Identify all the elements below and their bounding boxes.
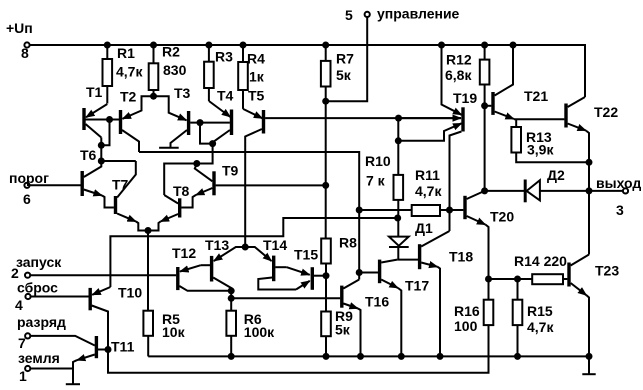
- diode Д1: [389, 237, 409, 260]
- svg-text:4,7к: 4,7к: [116, 64, 143, 80]
- wire comparator tail to R5: [147, 231, 149, 311]
- svg-text:T2: T2: [120, 89, 137, 105]
- svg-text:+Uп: +Uп: [6, 20, 33, 36]
- transistor T21: [493, 45, 564, 127]
- svg-text:T20: T20: [490, 209, 514, 225]
- resistor R4 1к: [238, 45, 248, 109]
- wire +U supply rail: [30, 45, 585, 97]
- junction dot T20 base node: [446, 207, 453, 214]
- svg-text:R3: R3: [215, 49, 233, 65]
- resistor R1 4,7к: [103, 45, 113, 104]
- svg-text:T1: T1: [86, 84, 103, 100]
- svg-text:R11: R11: [415, 167, 440, 183]
- wire T2 collector bus: [139, 152, 359, 280]
- resistor R16 100: [484, 279, 494, 325]
- wire output node: [485, 191, 623, 255]
- svg-text:6: 6: [23, 191, 31, 207]
- resistor R2 830: [149, 45, 159, 96]
- resistor R3: [204, 45, 214, 101]
- svg-text:R7: R7: [336, 51, 354, 67]
- svg-text:R12: R12: [446, 52, 472, 68]
- transistor T15: [287, 267, 326, 290]
- pin 4 terminal сброс: [25, 294, 30, 299]
- ground under T3: [159, 147, 179, 149]
- ground rail: [148, 355, 589, 357]
- svg-text:T22: T22: [594, 104, 618, 120]
- transistor T16: [342, 280, 361, 357]
- pin 8 terminal +Uп: [24, 42, 29, 47]
- wire T13 collector node to R6: [230, 291, 232, 311]
- transistor T19: [398, 45, 463, 231]
- svg-text:T7: T7: [112, 177, 129, 193]
- svg-text:3: 3: [616, 202, 624, 218]
- svg-text:R1: R1: [117, 45, 135, 61]
- svg-text:6,8к: 6,8к: [445, 67, 472, 83]
- svg-text:5к: 5к: [336, 67, 352, 83]
- svg-text:T12: T12: [172, 245, 196, 261]
- resistor R5 10к: [143, 311, 153, 357]
- svg-text:R10: R10: [365, 153, 391, 169]
- transistor T8: [148, 195, 193, 231]
- wire T4 collector node down to comparator: [164, 144, 212, 195]
- svg-text:10к: 10к: [162, 324, 186, 340]
- wire T3/T4 base node to T4 collector: [200, 123, 213, 144]
- pin 2 terminal запуск: [25, 273, 30, 278]
- transistor T23: [569, 255, 589, 357]
- transistor T1: [84, 104, 120, 138]
- pin 1 terminal земля: [25, 366, 30, 371]
- resistor R13 3,9к: [511, 127, 589, 162]
- svg-text:Д1: Д1: [415, 220, 433, 236]
- svg-text:3,9к: 3,9к: [527, 142, 554, 158]
- svg-text:T16: T16: [365, 294, 389, 310]
- svg-text:T15: T15: [294, 247, 318, 263]
- transistor T6: [30, 161, 114, 208]
- svg-text:5к: 5к: [335, 322, 351, 338]
- wire управление column R7: [326, 17, 368, 101]
- svg-text:R2: R2: [162, 44, 180, 60]
- wire lower rail T11 base to R16: [108, 325, 489, 373]
- svg-text:R8: R8: [339, 235, 357, 251]
- junction dot T9 collector: [145, 160, 201, 234]
- transistor T11: [30, 336, 108, 384]
- transistor T10: [90, 287, 110, 350]
- resistor R6 100к: [226, 311, 236, 357]
- wire T6/T7 collector link: [101, 160, 136, 162]
- ground bottom right: [582, 373, 595, 375]
- wire запуск to T12 base: [30, 274, 176, 276]
- svg-text:T21: T21: [524, 88, 548, 104]
- pin 3 terminal выход: [623, 188, 628, 193]
- svg-text:100к: 100к: [244, 324, 275, 340]
- transistor T7: [116, 161, 149, 231]
- transistor T17: [359, 260, 401, 357]
- wire W flip-flop link: [110, 218, 397, 287]
- svg-text:T19: T19: [453, 90, 477, 106]
- ground under T11: [66, 383, 80, 385]
- resistor R14 220: [532, 274, 563, 284]
- resistor R15 4,7к: [513, 279, 523, 356]
- pin 5 terminal управление: [365, 12, 370, 17]
- svg-text:R4: R4: [247, 51, 265, 67]
- junction dots on +U rail: [104, 42, 517, 49]
- svg-text:T14: T14: [263, 237, 287, 253]
- transistor T4: [209, 101, 232, 144]
- wire T23 emitter to ground symbol: [588, 356, 590, 374]
- junction dots flip-flop: [356, 207, 363, 277]
- wire земля: [30, 368, 72, 370]
- svg-text:T11: T11: [111, 339, 135, 355]
- svg-text:7: 7: [18, 335, 26, 351]
- svg-text:запуск: запуск: [16, 254, 62, 270]
- junction dots ground rail: [228, 353, 593, 360]
- svg-text:сброс: сброс: [17, 280, 58, 296]
- junction dots R10 column: [394, 115, 402, 222]
- svg-text:выход: выход: [596, 175, 641, 191]
- transistor T20: [465, 191, 489, 279]
- svg-text:8: 8: [21, 45, 29, 61]
- junction dots R12 column: [481, 102, 488, 194]
- svg-text:7 к: 7 к: [366, 173, 386, 189]
- svg-text:4,7к: 4,7к: [415, 183, 442, 199]
- svg-text:T17: T17: [405, 278, 429, 294]
- svg-text:T13: T13: [205, 237, 229, 253]
- wire T5 base to T19: [265, 117, 461, 119]
- svg-text:5: 5: [345, 7, 353, 23]
- svg-text:100: 100: [454, 318, 478, 334]
- svg-text:T9: T9: [222, 163, 239, 179]
- resistor R11 4,7к: [412, 205, 440, 216]
- pin 6 terminal порог: [24, 183, 29, 188]
- transistor T18: [397, 231, 449, 356]
- node T1/T2 base to T1 collector: [101, 120, 109, 146]
- transistor T3: [154, 96, 230, 147]
- svg-text:T6: T6: [80, 147, 97, 163]
- svg-text:T5: T5: [248, 88, 265, 104]
- svg-text:Д2: Д2: [547, 167, 565, 183]
- svg-text:T4: T4: [217, 88, 234, 104]
- svg-text:разряд: разряд: [17, 314, 66, 330]
- junction dot T11 base node: [105, 346, 112, 353]
- junction dots output column: [586, 159, 593, 195]
- transistor T2: [121, 96, 154, 152]
- wire R12 to T21 base and T20 collector: [485, 106, 492, 191]
- wire T16 base: [231, 297, 340, 299]
- transistor T9: [181, 164, 325, 208]
- svg-text:1: 1: [19, 368, 27, 384]
- svg-text:1к: 1к: [249, 69, 265, 85]
- wire R11 row: [359, 209, 463, 211]
- transistor T22: [566, 97, 589, 191]
- wire сброс to T10 base: [31, 296, 89, 298]
- pin 7 terminal разряд: [25, 333, 30, 338]
- svg-text:4: 4: [15, 297, 23, 313]
- transistor T5: [243, 109, 264, 247]
- wire T1 collector column: [100, 138, 102, 162]
- resistor R12 6,8к: [480, 45, 490, 106]
- junction dots trigger mirror: [228, 244, 330, 302]
- svg-text:T23: T23: [595, 263, 619, 279]
- svg-text:T18: T18: [449, 249, 473, 265]
- junction dots left mirror: [98, 93, 216, 165]
- svg-text:земля: земля: [18, 350, 60, 366]
- svg-text:T8: T8: [173, 183, 190, 199]
- wire R7 to T9 base and R8: [325, 101, 327, 238]
- svg-text:порог: порог: [9, 170, 49, 186]
- transistor T14: [245, 247, 296, 290]
- transistor T12: [178, 265, 231, 291]
- transistor T13: [201, 247, 245, 291]
- junction dots R14 row: [485, 276, 521, 283]
- wire R14 row: [489, 278, 568, 280]
- svg-text:4,7к: 4,7к: [527, 319, 554, 335]
- svg-text:T10: T10: [118, 285, 142, 301]
- junction dots control column: [322, 98, 329, 189]
- svg-text:R16: R16: [454, 303, 480, 319]
- resistor R10 7к: [394, 118, 404, 237]
- svg-text:830: 830: [163, 62, 187, 78]
- svg-text:R15: R15: [527, 303, 553, 319]
- resistor R8: [321, 239, 331, 312]
- resistor R7 5к: [321, 45, 331, 101]
- resistor R9 5к: [321, 312, 331, 357]
- svg-text:T3: T3: [174, 85, 191, 101]
- svg-text:управление: управление: [377, 6, 460, 22]
- diode Д2: [525, 180, 540, 203]
- svg-text:R14 220: R14 220: [514, 253, 567, 269]
